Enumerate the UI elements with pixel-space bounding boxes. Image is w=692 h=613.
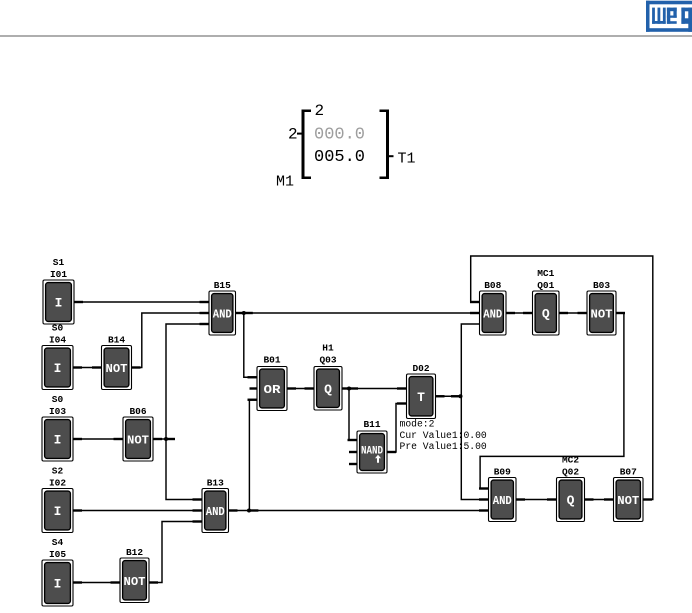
wire B15 node down to B01 input 1: [244, 313, 257, 377]
timer parameter display for M1/T1: [276, 102, 416, 191]
junction at B13 output: [247, 509, 251, 513]
edge-trigger arrow on B11: [375, 455, 381, 463]
right tick on bracket: [389, 155, 394, 157]
svg-text:MC1: MC1: [537, 268, 554, 279]
wire I05 output to B12 input: [73, 582, 120, 584]
svg-text:2: 2: [288, 126, 298, 144]
svg-text:AND: AND: [206, 505, 225, 519]
svg-text:Pre Value1:5.00: Pre Value1:5.00: [400, 441, 487, 452]
header horizontal rule: [0, 35, 692, 37]
svg-text:2: 2: [315, 102, 325, 120]
right bracket of display: [380, 110, 390, 180]
svg-text:B07: B07: [620, 467, 637, 478]
wire I04 output to B14 input: [73, 367, 102, 369]
WEG logo: [646, 1, 692, 32]
input block I03 (S0): [42, 394, 73, 461]
svg-text:M1: M1: [276, 174, 294, 191]
svg-text:Cur Value1:0.00: Cur Value1:0.00: [400, 430, 487, 441]
output block Q02 (MC2): [557, 455, 585, 522]
AND gate B08: [480, 280, 507, 335]
wire I03 output to B06 input: [73, 438, 123, 440]
wire B07 output feedback to B08 input 1: [471, 256, 653, 500]
svg-text:B12: B12: [126, 547, 143, 558]
timer block D02: [407, 363, 436, 419]
NOT gate B14: [102, 335, 132, 390]
svg-text:H1: H1: [322, 343, 334, 354]
svg-text:Q02: Q02: [562, 467, 579, 478]
svg-text:Q01: Q01: [537, 280, 554, 291]
NAND gate B11 (edge triggered): [357, 419, 387, 473]
svg-text:I03: I03: [49, 406, 66, 417]
svg-text:I: I: [54, 361, 62, 376]
wire Q03 output to D02 input 1: [342, 388, 407, 390]
wire B12 output to B13 input 3: [149, 522, 202, 583]
svg-text:NOT: NOT: [124, 575, 146, 589]
wire B13 output to B09 input 3: [229, 510, 489, 512]
stub B11 input 3 (unconnected): [349, 463, 357, 465]
input block I04 (S0): [42, 323, 73, 390]
svg-text:I: I: [54, 433, 62, 448]
wire B06 output to B15 input 3: [153, 324, 209, 439]
svg-text:B08: B08: [484, 280, 501, 291]
junction at B15 output: [242, 311, 246, 315]
wire B08 output to Q01 input: [506, 312, 533, 314]
svg-text:B09: B09: [494, 467, 511, 478]
svg-text:D02: D02: [412, 363, 429, 374]
svg-text:S4: S4: [52, 537, 64, 548]
svg-text:S0: S0: [52, 394, 64, 405]
svg-text:B06: B06: [129, 406, 146, 417]
wire bus from B08 input 3 down to B09 input 2: [461, 324, 488, 500]
svg-text:NOT: NOT: [127, 434, 149, 448]
wire I01 output to B15 input 1: [74, 301, 209, 303]
svg-text:NOT: NOT: [106, 362, 128, 376]
svg-text:Q: Q: [324, 382, 332, 397]
svg-text:NAND: NAND: [361, 446, 383, 458]
output block Q01 (MC1): [533, 268, 560, 335]
wire D02 output to vertical bus node: [436, 395, 461, 397]
svg-text:AND: AND: [483, 308, 502, 322]
input block I05 (S4): [42, 537, 73, 606]
svg-text:I05: I05: [49, 549, 66, 560]
left tick on bracket: [297, 133, 302, 135]
svg-text:I: I: [54, 504, 62, 519]
svg-text:mode:2: mode:2: [400, 419, 435, 430]
svg-text:I: I: [54, 577, 62, 592]
wire B09 output to Q02 input: [516, 499, 557, 501]
input block I02 (S2): [42, 466, 73, 533]
svg-text:B01: B01: [263, 355, 280, 366]
wire I02 output to B13 input 2: [73, 510, 202, 512]
svg-text:B11: B11: [363, 419, 380, 430]
svg-text:S2: S2: [52, 466, 64, 477]
svg-text:MC2: MC2: [562, 455, 579, 466]
NOT gate B06: [123, 406, 153, 461]
svg-text:T: T: [417, 390, 425, 405]
AND gate B09: [489, 467, 517, 522]
svg-text:T1: T1: [398, 151, 416, 168]
wire B03 output down to B09 input 1: [480, 313, 624, 489]
svg-text:000.0: 000.0: [314, 126, 365, 145]
svg-text:AND: AND: [213, 308, 232, 322]
svg-text:S0: S0: [52, 323, 64, 334]
wire Q01 output to B03 input: [559, 312, 587, 314]
svg-text:I01: I01: [50, 269, 67, 280]
NOT gate B07: [614, 467, 644, 522]
junction at B06 output: [164, 437, 168, 441]
NOT gate B03: [587, 280, 616, 335]
wire B06 node down to B13 input 1: [166, 439, 202, 500]
junction at D02 output: [459, 394, 463, 398]
left bracket of display: [302, 110, 312, 180]
junction at Q03 output: [347, 387, 351, 391]
wire Q02 output to B07 input: [585, 499, 614, 501]
svg-text:NOT: NOT: [617, 494, 639, 508]
wire B14 output to B15 input 2: [132, 313, 210, 368]
block input/output port stubs: [73, 302, 652, 583]
svg-text:Q03: Q03: [319, 355, 336, 366]
svg-text:B14: B14: [108, 335, 125, 346]
svg-text:I04: I04: [49, 335, 66, 346]
svg-text:S1: S1: [53, 257, 65, 268]
svg-text:OR: OR: [264, 383, 282, 397]
svg-text:AND: AND: [493, 494, 512, 508]
AND gate B13: [202, 478, 229, 533]
svg-text:Q: Q: [567, 493, 575, 508]
wire B13 node up to B01 input 3: [249, 400, 257, 511]
svg-text:005.0: 005.0: [314, 148, 365, 167]
AND gate B15: [209, 280, 236, 335]
svg-text:B15: B15: [214, 280, 231, 291]
svg-text:NOT: NOT: [591, 308, 613, 322]
wire B15 output to B08 input 2: [236, 312, 480, 314]
svg-text:I: I: [55, 296, 63, 311]
svg-text:B13: B13: [207, 478, 224, 489]
wire Q03 node down to B11 input 1: [349, 389, 357, 441]
stub B11 input 2 (unconnected): [349, 451, 357, 453]
wire B11 output to D02 input 2: [387, 404, 407, 453]
OR gate B01: [257, 355, 287, 411]
svg-text:I02: I02: [49, 478, 66, 489]
svg-text:B03: B03: [593, 280, 610, 291]
NOT gate B12: [120, 547, 149, 603]
input block I01 (S1): [43, 257, 74, 324]
stub B01 input 2 (unconnected): [250, 387, 258, 389]
output block Q03 (H1): [314, 343, 342, 411]
wire B01 output to Q03 input: [287, 388, 314, 390]
svg-text:Q: Q: [542, 307, 550, 322]
